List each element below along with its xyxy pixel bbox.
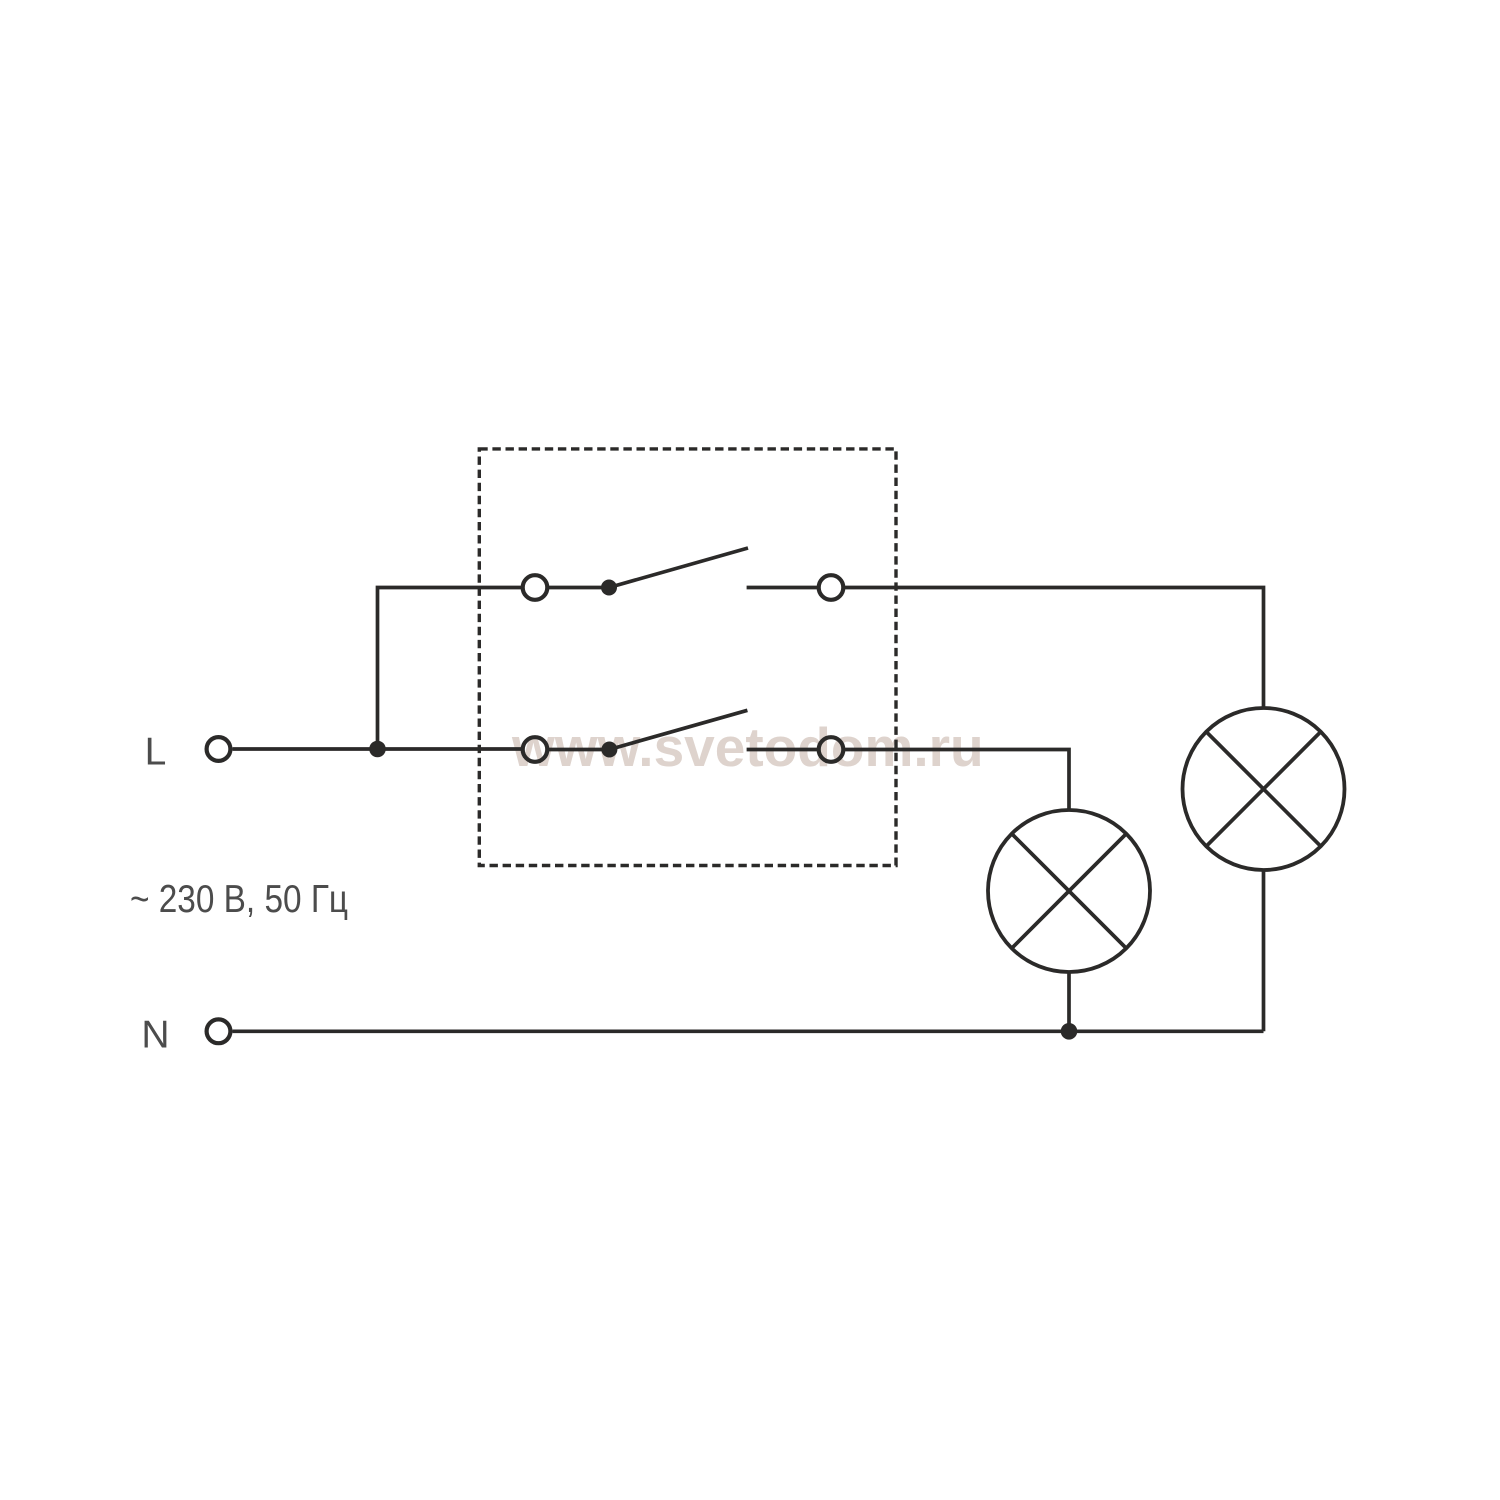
wire [548, 586, 609, 590]
wire switch pole 1 to lamp E1 [844, 588, 1263, 708]
wire [747, 586, 818, 590]
wire [548, 748, 609, 752]
switch pole 1 blade [609, 548, 748, 588]
switch pole 1 left terminal [523, 575, 548, 600]
lamp E2 [988, 810, 1150, 972]
wire lamp E2 to N line [1067, 973, 1071, 1032]
node L terminal [207, 737, 231, 761]
switch pole 2 right terminal [819, 737, 844, 762]
node N terminal [207, 1019, 231, 1043]
wire switch pole 2 to lamp E2 [844, 750, 1069, 810]
junction dot on N wire [1061, 1023, 1078, 1040]
switch pole 2 blade [609, 710, 747, 749]
svg-text:~ 230 В, 50 Гц: ~ 230 В, 50 Гц [130, 878, 348, 921]
switch pole 2 pivot dot [601, 742, 617, 758]
svg-text:www.svetodom.ru: www.svetodom.ru [511, 716, 984, 778]
wire N line [233, 1029, 1264, 1033]
wire lamp E1 to N line [1262, 871, 1266, 1032]
switch pole 1 pivot dot [601, 580, 617, 596]
switch pole 1 right terminal [819, 575, 844, 600]
wire [747, 748, 818, 752]
switch enclosure (dashed box) [479, 449, 896, 866]
svg-text:L: L [145, 731, 167, 774]
wire L to switch [233, 747, 522, 751]
switch pole 2 left terminal [523, 737, 548, 762]
lamp E1 [1183, 708, 1345, 870]
junction dot on L wire [369, 741, 386, 758]
svg-text:N: N [141, 1014, 169, 1057]
wire riser from L junction to top switch [378, 588, 522, 750]
